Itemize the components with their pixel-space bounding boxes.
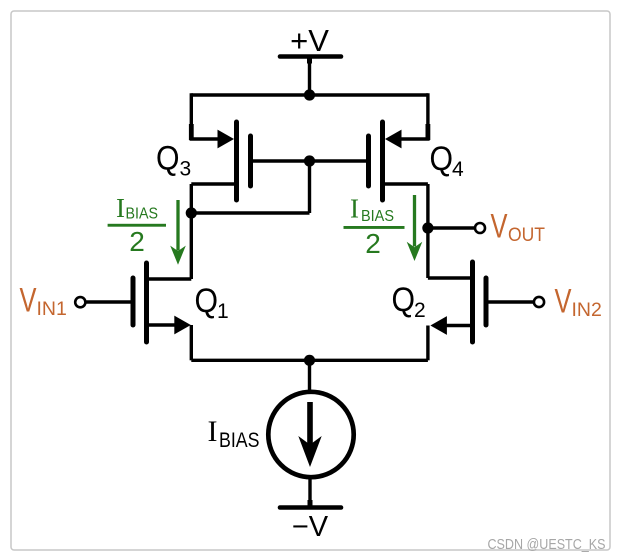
label Q2 <box>392 281 426 322</box>
svg-text:IN2: IN2 <box>572 299 602 321</box>
svg-text:IN1: IN1 <box>37 298 67 320</box>
wire Q4 source drop <box>398 93 428 139</box>
wire Q2 gate lead <box>489 300 534 303</box>
label Q3 <box>156 140 191 181</box>
wire diode connection horizontal <box>191 211 309 214</box>
transistor Q1 gate bar <box>131 278 136 325</box>
transistor Q2 channel bar <box>470 262 475 342</box>
svg-text:Q: Q <box>195 282 219 320</box>
svg-text:+V: +V <box>290 23 329 58</box>
wire Q1 source lead <box>149 323 178 326</box>
svg-text:I: I <box>208 415 218 448</box>
node gate junction <box>304 155 315 166</box>
svg-text:Q: Q <box>430 140 454 178</box>
transistor Q1 channel bar <box>144 263 149 342</box>
terminal VOUT open circle <box>475 223 485 233</box>
wire Q1 drain lead <box>149 277 191 280</box>
wire left vertical (Q3 drain to Q1 drain) <box>190 184 193 279</box>
svg-text:CSDN @UESTC_KS: CSDN @UESTC_KS <box>488 536 606 553</box>
svg-text:I: I <box>116 193 125 223</box>
label Q4 <box>430 140 465 181</box>
wire cap +V stub <box>307 57 312 64</box>
svg-text:BIAS: BIAS <box>361 208 394 225</box>
wire common gate rail <box>251 159 369 162</box>
wire cap -V stub <box>308 500 313 507</box>
wire Q1 gate lead <box>87 300 131 303</box>
label Q1 <box>195 282 229 323</box>
svg-text:2: 2 <box>129 226 145 257</box>
wire corner cap right <box>426 124 431 140</box>
current source IBIAS circle <box>268 392 353 477</box>
wire top supply rail <box>191 93 428 96</box>
svg-text:BIAS: BIAS <box>219 429 260 452</box>
transistor Q3 source arrow (PMOS, points into device) <box>218 130 235 149</box>
transistor Q4 channel bar <box>380 122 385 200</box>
wire Q3 source drop <box>191 93 221 139</box>
wire Q3 drain lead <box>191 182 234 185</box>
wire Q2 source lead <box>442 324 470 327</box>
svg-text:4: 4 <box>452 158 464 181</box>
label VIN1 <box>20 282 67 321</box>
svg-text:OUT: OUT <box>508 225 545 246</box>
wire Q2 drain lead <box>428 276 470 279</box>
node output junction <box>422 222 433 233</box>
node supply junction <box>304 89 315 100</box>
terminal VIN2 open circle <box>534 297 544 307</box>
transistor Q2 source arrow (NMOS, points away) <box>430 316 447 335</box>
transistor Q1 source arrow (NMOS, points away) <box>174 316 191 335</box>
svg-text:2: 2 <box>414 299 426 322</box>
svg-text:V: V <box>20 282 37 320</box>
wire +V stub <box>308 57 311 95</box>
svg-text:Q: Q <box>392 281 416 319</box>
svg-text:−V: −V <box>292 511 329 543</box>
wire diode connection vertical <box>308 161 311 213</box>
svg-text:BIAS: BIAS <box>126 206 159 223</box>
transistor Q2 gate bar <box>484 278 489 325</box>
wire tail rail <box>191 359 428 362</box>
node Q3 drain junction <box>186 207 197 218</box>
wire Q2 source drop <box>426 326 429 361</box>
transistor Q4 source arrow (PMOS, points into device) <box>385 130 402 149</box>
label VOUT <box>491 208 546 247</box>
wire Q1 source drop <box>190 325 193 360</box>
wire right vertical (Q4 drain to Q2 drain) <box>426 184 429 278</box>
node tail junction <box>304 355 315 366</box>
current arrow IBIAS/2 right (green) <box>407 195 423 261</box>
wire current source to -V <box>308 475 311 507</box>
svg-text:2: 2 <box>365 228 381 259</box>
transistor Q3 channel bar <box>234 122 239 200</box>
wire corner cap left <box>189 124 194 140</box>
label IBIAS <box>208 415 260 452</box>
current source arrow <box>298 402 321 467</box>
transistor Q3 gate bar <box>248 136 253 186</box>
wire tail to current source <box>308 360 311 393</box>
svg-text:Q: Q <box>156 140 180 178</box>
label VIN2 <box>555 283 602 322</box>
terminal VIN1 open circle <box>75 297 85 307</box>
svg-text:1: 1 <box>217 300 229 323</box>
wire output lead <box>428 226 474 229</box>
power -V supply symbol <box>280 505 341 510</box>
svg-text:V: V <box>491 208 508 246</box>
wire Q4 drain lead <box>385 182 428 185</box>
svg-text:3: 3 <box>180 158 192 181</box>
svg-text:V: V <box>555 283 572 321</box>
current arrow IBIAS/2 left (green) <box>170 200 186 265</box>
current label IBIAS/2 left (green) <box>108 193 166 257</box>
current label IBIAS/2 right (green) <box>344 194 405 260</box>
power +V supply symbol <box>280 54 341 59</box>
svg-text:I: I <box>350 194 359 224</box>
transistor Q4 gate bar <box>366 136 371 186</box>
